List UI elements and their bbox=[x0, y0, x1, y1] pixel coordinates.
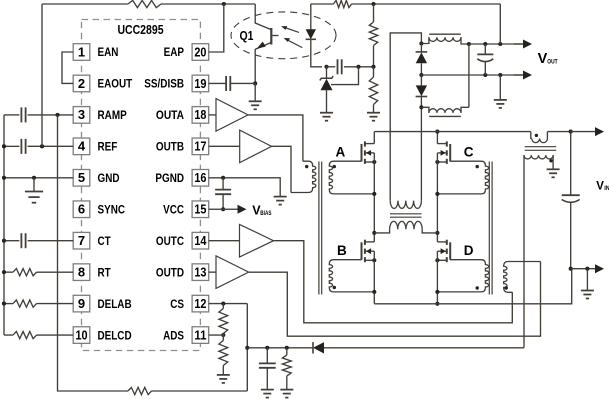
capacitor C_CT bbox=[21, 233, 25, 248]
node L1 out bbox=[467, 42, 471, 46]
wire left ground rail bbox=[3, 115, 5, 335]
wire OUTD pin to buffer bbox=[209, 271, 216, 273]
wire SS/DISB pin bbox=[209, 82, 226, 84]
node T_A sec dot bbox=[333, 165, 336, 168]
svg-text:DELAB: DELAB bbox=[98, 297, 132, 311]
svg-text:19: 19 bbox=[194, 76, 206, 91]
svg-text:V: V bbox=[596, 180, 604, 192]
pin 12 box and number bbox=[192, 295, 209, 312]
svg-text:RT: RT bbox=[98, 265, 112, 279]
node T_B sec dot bbox=[333, 286, 336, 289]
transistor Q_D MOSFET bbox=[437, 240, 450, 263]
diode D_R1 bbox=[416, 44, 428, 76]
winding T_MAIN secondary bbox=[390, 201, 421, 209]
arrow VOUT- bbox=[514, 71, 532, 80]
wire RAMP row right bbox=[28, 114, 74, 116]
wire LED anode riser bbox=[310, 4, 312, 30]
pin 9 box and number bbox=[73, 295, 90, 312]
node GND rail tap bbox=[2, 176, 6, 180]
wire CS res ground lead bbox=[286, 376, 288, 390]
node VIN- junction bbox=[569, 267, 573, 271]
svg-text:11: 11 bbox=[194, 327, 206, 342]
winding T_CD primary bbox=[504, 262, 541, 293]
node S1 bbox=[419, 41, 423, 45]
wire A drain to rail bbox=[373, 132, 375, 144]
label A bbox=[336, 144, 346, 159]
wire CS filter line bbox=[247, 347, 313, 349]
resistor R_RT bbox=[13, 269, 37, 276]
pin 11 label ADS bbox=[163, 328, 184, 342]
svg-text:EAP: EAP bbox=[164, 45, 185, 59]
pin 8 box and number bbox=[73, 264, 90, 281]
arrow VOUT+ bbox=[514, 40, 532, 49]
buffer OUTB bbox=[240, 130, 272, 163]
resistor R_CS2 bbox=[219, 341, 228, 366]
pin 13 label OUTD bbox=[156, 265, 185, 279]
transistor Q_B MOSFET bbox=[362, 240, 375, 263]
pin 10 label DELCD bbox=[98, 328, 132, 342]
svg-text:8: 8 bbox=[78, 264, 85, 279]
resistor R_DELCD bbox=[13, 331, 37, 338]
svg-text:6: 6 bbox=[78, 202, 85, 217]
wire ADS pin bbox=[209, 334, 224, 336]
wire OUTC to CD primary bbox=[274, 241, 513, 323]
pin 10 box and number bbox=[73, 327, 90, 344]
node T_CS secondary dot bbox=[549, 159, 552, 162]
wire RT row right bbox=[37, 271, 74, 273]
buffer OUTA bbox=[216, 99, 248, 132]
svg-text:IN: IN bbox=[604, 185, 609, 192]
pin 3 box and number bbox=[73, 107, 90, 124]
inductor L2 bbox=[421, 107, 469, 113]
svg-text:18: 18 bbox=[194, 107, 206, 122]
wire Q1 emitter down bbox=[254, 49, 256, 83]
wire OUTB pin to buffer bbox=[209, 145, 240, 147]
svg-text:D: D bbox=[464, 243, 474, 258]
svg-text:EAN: EAN bbox=[98, 45, 119, 59]
transistor Q_C MOSFET bbox=[437, 141, 450, 164]
wire Q1 emitter with arrow bbox=[255, 42, 271, 50]
wire top VOUT feed right bbox=[352, 3, 501, 5]
winding T_AB primary bbox=[291, 161, 316, 192]
node A-T join bbox=[372, 192, 376, 196]
wire OUTA to gate transformer bbox=[248, 115, 303, 161]
label VIN bbox=[596, 180, 609, 192]
node C drain rail bbox=[435, 130, 439, 134]
node D-T join bbox=[435, 290, 439, 294]
wire L2 loop bbox=[468, 44, 470, 107]
capacitor C_CS bbox=[259, 363, 276, 367]
node T_CS primary dot bbox=[535, 134, 538, 137]
node T_C sec dot bbox=[476, 165, 479, 168]
resistor R_DELAB bbox=[13, 300, 37, 307]
svg-text:GND: GND bbox=[98, 171, 120, 185]
wire GND row bbox=[4, 177, 73, 179]
svg-text:OUTB: OUTB bbox=[156, 140, 184, 154]
wire CS pin bbox=[209, 303, 248, 305]
core T_CD bbox=[489, 162, 492, 295]
svg-text:CS: CS bbox=[170, 297, 184, 311]
svg-text:EAOUT: EAOUT bbox=[98, 77, 133, 91]
pin 15 box and number bbox=[192, 201, 209, 218]
ground TL431 bbox=[320, 113, 333, 121]
wire C drain to rail bbox=[436, 132, 438, 144]
wire SS cap to node bbox=[230, 82, 255, 84]
wire CS res lead bbox=[286, 348, 288, 355]
winding T_CD secondary D bbox=[437, 260, 488, 292]
node PGND cap tap bbox=[221, 176, 225, 180]
svg-text:OUTA: OUTA bbox=[156, 108, 185, 122]
pin 3 label RAMP bbox=[98, 108, 127, 122]
pin 5 box and number bbox=[73, 170, 90, 187]
svg-text:A: A bbox=[336, 144, 346, 159]
wire top REF feed right bbox=[161, 3, 255, 5]
svg-text:SYNC: SYNC bbox=[98, 202, 126, 216]
svg-text:B: B bbox=[337, 243, 347, 258]
node D source bbox=[435, 258, 439, 262]
core L2 bbox=[429, 115, 461, 117]
svg-text:Q1: Q1 bbox=[240, 29, 254, 43]
node C source bbox=[435, 160, 439, 164]
wire VIN ground stub bbox=[586, 269, 588, 291]
wire OUTA pin to buffer bbox=[209, 114, 216, 116]
svg-text:17: 17 bbox=[194, 139, 206, 154]
node rectifier mid bbox=[419, 73, 423, 77]
ground CS divider bbox=[217, 375, 230, 383]
node D source rail bbox=[435, 302, 439, 306]
wire VCC cap top lead bbox=[222, 178, 224, 190]
transistor Q1 base bar bbox=[270, 28, 272, 45]
wire VCC pin bbox=[209, 208, 223, 210]
wire REF riser to top bbox=[41, 4, 43, 146]
wire PGND bbox=[209, 178, 281, 197]
wire R_FB2 lead bbox=[373, 67, 375, 77]
pin 4 label REF bbox=[98, 140, 118, 154]
node VOUT+ top feed bbox=[498, 42, 502, 46]
wire D source down bbox=[436, 251, 438, 304]
core T_MAIN bbox=[390, 214, 422, 217]
svg-text:15: 15 bbox=[194, 202, 206, 217]
node A source bbox=[372, 160, 376, 164]
wire VIN column bbox=[570, 132, 572, 196]
winding T_MAIN primary bbox=[374, 221, 437, 233]
pin 5 label GND bbox=[98, 171, 120, 185]
node ref junction bbox=[356, 65, 360, 69]
wire bridge top rail left bbox=[374, 131, 531, 133]
pin 13 box and number bbox=[192, 264, 209, 281]
pin 11 box and number bbox=[192, 327, 209, 344]
node VIN+ tap bbox=[569, 130, 573, 134]
pin 19 box and number bbox=[192, 75, 209, 92]
node RAMP junction bbox=[55, 113, 59, 117]
node C_OUT bottom bbox=[483, 73, 487, 77]
node CS cap tap bbox=[265, 346, 269, 350]
wire OUTD to CD primary bbox=[249, 262, 541, 337]
capacitor C_FB bbox=[338, 59, 342, 74]
node RT rail tap bbox=[2, 270, 6, 274]
pin 4 box and number bbox=[73, 138, 90, 155]
wire CT row right bbox=[28, 240, 74, 242]
svg-text:9: 9 bbox=[78, 296, 85, 311]
node C-T join bbox=[435, 192, 439, 196]
winding T_CS secondary bbox=[524, 155, 553, 159]
pin 2 box and number bbox=[73, 75, 90, 92]
wire VOUT ground stub bbox=[499, 75, 501, 100]
diode TL431 shunt bbox=[320, 67, 333, 113]
svg-text:13: 13 bbox=[194, 264, 206, 279]
wire top feed riser bbox=[499, 4, 501, 44]
pin 20 label EAP bbox=[164, 45, 185, 59]
wire B source down bbox=[373, 251, 375, 304]
resistor R_CS3 bbox=[282, 355, 291, 376]
opto light arrow 1 bbox=[281, 26, 299, 32]
winding T_CD secondary C bbox=[437, 161, 488, 194]
svg-text:RAMP: RAMP bbox=[98, 108, 127, 122]
IC U1 title UCC2895 bbox=[117, 23, 163, 37]
node REF rail tap bbox=[2, 144, 6, 148]
diode LED of Q1 bbox=[306, 29, 316, 39]
pin 12 label CS bbox=[170, 297, 184, 311]
wire RT row left bbox=[4, 271, 13, 273]
wire DELCD row left bbox=[4, 334, 13, 336]
wire REF row right bbox=[28, 145, 74, 147]
node B source bbox=[372, 258, 376, 262]
wire EAP pin riser bbox=[209, 4, 224, 52]
node T_D sec dot bbox=[476, 286, 479, 289]
node LED-zener junction bbox=[324, 65, 328, 69]
pin 16 box and number bbox=[192, 170, 209, 187]
pin 18 box and number bbox=[192, 107, 209, 124]
wire CT row left bbox=[4, 240, 19, 242]
svg-text:UCC2895: UCC2895 bbox=[117, 23, 163, 37]
pin 19 label SS/DISB bbox=[144, 77, 184, 91]
svg-text:7: 7 bbox=[78, 233, 85, 248]
wire CS2 to ground bbox=[222, 366, 224, 375]
pin 2 label EAOUT bbox=[98, 77, 133, 91]
label VBIAS bbox=[252, 203, 271, 217]
optocoupler Q1 dashed ellipse bbox=[231, 12, 336, 59]
svg-text:4: 4 bbox=[78, 139, 86, 154]
label Q1 bbox=[240, 29, 254, 43]
node CS res tap bbox=[285, 346, 289, 350]
node S2 bbox=[419, 105, 423, 109]
pin 6 label SYNC bbox=[98, 202, 126, 216]
node CS filter junction bbox=[245, 346, 249, 350]
opto light arrow 2 bbox=[284, 38, 303, 48]
ground PGND bbox=[274, 197, 287, 205]
wire top VOUT feed left bbox=[311, 3, 334, 5]
svg-text:2: 2 bbox=[78, 76, 85, 91]
ground CS res bbox=[280, 390, 293, 398]
node SS junction bbox=[253, 81, 257, 85]
pin 9 label DELAB bbox=[98, 297, 132, 311]
pin 16 label PGND bbox=[155, 171, 184, 185]
pin 7 label CT bbox=[98, 234, 112, 248]
pin 7 box and number bbox=[73, 232, 90, 249]
pin 8 label RT bbox=[98, 265, 112, 279]
pin 17 label OUTB bbox=[156, 140, 184, 154]
capacitor C_SS bbox=[226, 76, 230, 91]
svg-text:V: V bbox=[538, 51, 548, 67]
IC U1 UCC2895 dashed outline bbox=[82, 20, 201, 351]
label VOUT bbox=[538, 51, 558, 67]
capacitor C_VCC bbox=[215, 190, 231, 195]
svg-text:PGND: PGND bbox=[155, 171, 184, 185]
pin 18 label OUTA bbox=[156, 108, 185, 122]
capacitor C_VIN bbox=[562, 195, 580, 202]
node REF riser junction bbox=[40, 144, 44, 148]
ground VIN bbox=[581, 291, 594, 299]
node VCC junction bbox=[221, 207, 225, 211]
winding T_AB secondary A bbox=[329, 161, 374, 194]
diode D_CS bbox=[313, 342, 324, 353]
resistor R_FB1 bbox=[369, 22, 377, 46]
wire VIN cap to minus bbox=[570, 202, 572, 268]
svg-text:REF: REF bbox=[98, 140, 118, 154]
wire R_FB2 to ground bbox=[373, 105, 375, 113]
ground left GND bbox=[25, 192, 43, 203]
wire CS diode to CT bbox=[324, 347, 524, 349]
wire CS cap lead bbox=[266, 348, 268, 364]
capacitor C_RAMP bbox=[21, 107, 25, 122]
buffer OUTC bbox=[240, 224, 274, 257]
pin 20 box and number bbox=[192, 44, 209, 61]
pin 6 box and number bbox=[73, 201, 90, 218]
node T_CD primary dot bbox=[505, 286, 508, 289]
svg-text:OUTC: OUTC bbox=[156, 234, 185, 248]
wire secondary right riser bbox=[420, 107, 422, 200]
svg-text:C: C bbox=[464, 144, 474, 159]
wire OUTB to gate transformer bbox=[272, 146, 292, 192]
core L1 bbox=[429, 33, 461, 35]
svg-text:1: 1 bbox=[78, 44, 85, 59]
wire divider riser bbox=[373, 4, 375, 22]
winding T_AB secondary B bbox=[329, 260, 374, 292]
diode D_R2 bbox=[416, 75, 428, 107]
wire VOUT- rail bbox=[421, 74, 523, 76]
pin 1 box and number bbox=[73, 44, 90, 61]
wire A source down bbox=[373, 153, 375, 242]
wire top REF feed left bbox=[42, 3, 128, 5]
wire VCC cap bottom lead bbox=[222, 194, 224, 209]
pin 14 label OUTC bbox=[156, 234, 185, 248]
ground CS cap bbox=[261, 390, 274, 398]
label D bbox=[464, 243, 474, 258]
core T_AB bbox=[319, 162, 322, 295]
svg-text:CT: CT bbox=[98, 234, 112, 248]
wire EAN-EAOUT feedback bracket bbox=[62, 52, 73, 83]
svg-text:VCC: VCC bbox=[163, 202, 184, 216]
svg-text:SS/DISB: SS/DISB bbox=[144, 77, 184, 91]
buffer OUTD bbox=[216, 256, 249, 289]
svg-text:12: 12 bbox=[194, 296, 206, 311]
wire SS ground stub bbox=[254, 83, 256, 101]
wire LED cathode down bbox=[311, 39, 322, 67]
arrow VIN+ bbox=[571, 127, 604, 136]
wire DELAB row right bbox=[37, 303, 74, 305]
wire OUTC pin to buffer bbox=[209, 240, 240, 242]
node primary left join bbox=[372, 231, 376, 235]
wire T_CS sec left drop bbox=[523, 155, 525, 348]
wire R_FB1 to node bbox=[373, 46, 375, 67]
ground VOUT bbox=[494, 100, 507, 108]
resistor R_LED bbox=[334, 0, 352, 7]
wire bridge top rail right bbox=[547, 131, 570, 133]
svg-text:ADS: ADS bbox=[163, 328, 184, 342]
node GND symbol tap bbox=[32, 176, 36, 180]
wire bottom to CS bbox=[152, 390, 248, 392]
resistor R_TOP bbox=[128, 0, 161, 7]
label C bbox=[464, 144, 474, 159]
arrow VIN- bbox=[571, 264, 604, 273]
transistor Q1 base stub bbox=[272, 35, 278, 37]
pin 15 label VCC bbox=[163, 202, 184, 216]
node C_OUT top bbox=[483, 42, 487, 46]
node primary right join bbox=[435, 231, 439, 235]
svg-text:DELCD: DELCD bbox=[98, 328, 132, 342]
wire bottom rail bbox=[374, 269, 571, 304]
ground T_CS bbox=[547, 169, 560, 177]
wire T_CS sec right to ground bbox=[552, 155, 554, 169]
wire TL431 ref bbox=[331, 67, 359, 85]
resistor R_RAMP-CS bbox=[128, 387, 152, 394]
wire RAMP to CS drop bbox=[58, 115, 129, 391]
capacitor C_OUT bbox=[477, 44, 493, 75]
arrow VBIAS bbox=[223, 205, 246, 214]
wire secondary left riser bbox=[390, 33, 421, 201]
wire DELCD row right bbox=[37, 334, 74, 336]
capacitor C_REF bbox=[21, 139, 25, 154]
svg-text:OUT: OUT bbox=[547, 58, 557, 65]
node DELAB rail tap bbox=[2, 302, 6, 306]
node divider mid bbox=[371, 65, 375, 69]
wire RAMP row left bbox=[4, 114, 19, 116]
wire GND stub bbox=[33, 178, 35, 192]
node B-T join bbox=[372, 290, 376, 294]
svg-text:20: 20 bbox=[194, 44, 206, 59]
svg-text:10: 10 bbox=[75, 327, 87, 342]
pin 17 box and number bbox=[192, 138, 209, 155]
wire DELAB row left bbox=[4, 303, 13, 305]
wire zener node to cap bbox=[327, 66, 336, 68]
wire cap to ref node bbox=[344, 66, 374, 68]
pin 1 label EAN bbox=[98, 45, 119, 59]
wire REF row left bbox=[4, 145, 19, 147]
node divider top bbox=[371, 2, 375, 6]
svg-text:5: 5 bbox=[78, 170, 85, 185]
svg-text:16: 16 bbox=[194, 170, 206, 185]
node EAP top junction bbox=[222, 2, 226, 6]
wire CS cap ground lead bbox=[266, 368, 268, 390]
wire chain mid bbox=[222, 334, 224, 341]
ground Q1 emitter bbox=[249, 101, 262, 109]
node T_AB primary dot bbox=[305, 165, 308, 168]
svg-text:OUTD: OUTD bbox=[156, 265, 185, 279]
wire VOUT+ rail bbox=[469, 43, 524, 45]
winding T_CS primary bbox=[531, 132, 548, 143]
resistor R_CS1 bbox=[219, 309, 228, 334]
wire Q1 collector bbox=[255, 4, 271, 30]
inductor L1 bbox=[421, 37, 469, 44]
label B bbox=[337, 243, 347, 258]
svg-text:BIAS: BIAS bbox=[260, 211, 271, 217]
resistor R_FB2 bbox=[369, 77, 377, 105]
svg-text:3: 3 bbox=[78, 107, 85, 122]
svg-text:14: 14 bbox=[194, 233, 207, 248]
node CT rail tap bbox=[2, 239, 6, 243]
node VIN- ground tap bbox=[585, 267, 589, 271]
ground divider bbox=[367, 113, 380, 121]
